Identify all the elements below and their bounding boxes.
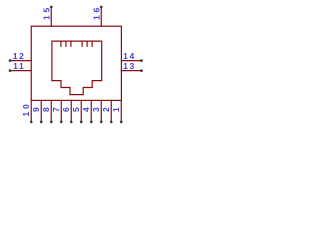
contact tick 2 — [65, 41, 67, 46]
svg-text:11: 11 — [13, 61, 25, 71]
svg-text:13: 13 — [123, 61, 136, 71]
pin 1 endpoint dot — [120, 121, 123, 124]
pin 6 line — [70, 100, 72, 122]
pin 13 endpoint dot — [140, 69, 143, 72]
svg-text:5: 5 — [71, 107, 81, 112]
connector body J1 — [31, 26, 121, 100]
pin 10 endpoint dot — [30, 121, 33, 124]
svg-text:7: 7 — [51, 107, 61, 112]
pin 4 line — [90, 100, 92, 122]
svg-text:14: 14 — [123, 51, 136, 61]
pin 6 endpoint dot — [70, 121, 73, 124]
pin 14 line — [121, 60, 141, 62]
pin 9 endpoint dot — [40, 121, 43, 124]
pin 12 endpoint dot — [9, 59, 12, 62]
pin 9 line — [40, 100, 42, 122]
svg-text:6: 6 — [61, 107, 71, 112]
pin 16 line — [100, 7, 102, 26]
contact tick 3 — [70, 41, 72, 46]
svg-text:15: 15 — [41, 5, 51, 20]
pin 10 line — [30, 100, 32, 122]
pin 7 line — [60, 100, 62, 122]
svg-text:9: 9 — [31, 107, 41, 112]
pin 11 line — [10, 70, 31, 72]
contact tick 1 — [60, 41, 62, 46]
svg-text:8: 8 — [41, 107, 51, 112]
svg-text:1: 1 — [111, 107, 121, 112]
pin 2 endpoint dot — [110, 121, 113, 124]
svg-text:2: 2 — [101, 107, 111, 112]
svg-text:4: 4 — [81, 107, 91, 112]
pin 15 line — [50, 7, 52, 26]
pin 4 endpoint dot — [90, 121, 93, 124]
pin 16 endpoint dot — [100, 6, 103, 9]
svg-text:10: 10 — [21, 101, 31, 116]
pin 8 line — [50, 100, 52, 122]
pin 11 endpoint dot — [9, 69, 12, 72]
RJ45 jack outline — [52, 41, 102, 95]
contact tick 5 — [86, 41, 88, 46]
pin 5 endpoint dot — [80, 121, 83, 124]
svg-text:12: 12 — [13, 51, 26, 61]
pin 12 line — [10, 60, 31, 62]
pin 2 line — [110, 100, 112, 122]
svg-text:16: 16 — [91, 5, 101, 20]
svg-text:3: 3 — [91, 107, 101, 112]
pin 13 line — [121, 70, 141, 72]
pin 1 line — [120, 100, 122, 122]
pin 3 line — [100, 100, 102, 122]
pin 15 endpoint dot — [50, 6, 53, 9]
pin 8 endpoint dot — [50, 121, 53, 124]
pin 14 endpoint dot — [140, 59, 143, 62]
pin 5 line — [80, 100, 82, 122]
contact tick 6 — [91, 41, 93, 46]
pin 7 endpoint dot — [60, 121, 63, 124]
contact tick 4 — [81, 41, 83, 46]
pin 3 endpoint dot — [100, 121, 103, 124]
